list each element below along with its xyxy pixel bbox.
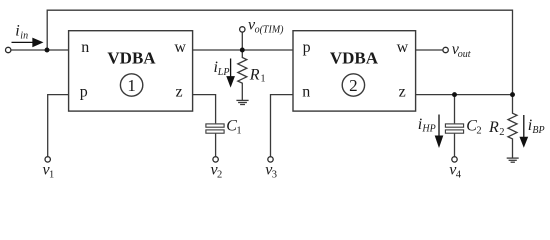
svg-text:2: 2 [217,169,222,180]
svg-text:BP: BP [532,125,544,136]
svg-text:z: z [399,83,406,100]
svg-text:1: 1 [236,125,241,136]
svg-text:VDBA: VDBA [107,49,156,68]
svg-text:R: R [249,66,260,83]
svg-text:1: 1 [260,73,265,84]
svg-text:out: out [458,49,471,60]
svg-text:R: R [488,119,499,136]
svg-text:i: i [15,23,19,40]
svg-text:z: z [175,83,182,100]
svg-text:o(TIM): o(TIM) [255,25,285,36]
svg-text:n: n [81,39,89,56]
svg-text:w: w [174,39,186,56]
svg-text:2: 2 [499,127,504,138]
svg-text:p: p [80,83,88,100]
svg-text:HP: HP [421,124,435,135]
svg-text:1: 1 [49,169,54,180]
svg-text:n: n [302,83,310,100]
svg-text:3: 3 [272,169,277,180]
svg-text:4: 4 [456,169,462,180]
svg-text:1: 1 [127,76,136,95]
svg-text:in: in [20,31,28,42]
svg-text:2: 2 [476,125,481,136]
svg-text:LP: LP [217,67,230,78]
svg-text:2: 2 [349,76,358,95]
svg-text:VDBA: VDBA [330,49,379,68]
svg-text:w: w [397,39,409,56]
svg-text:p: p [303,39,311,56]
